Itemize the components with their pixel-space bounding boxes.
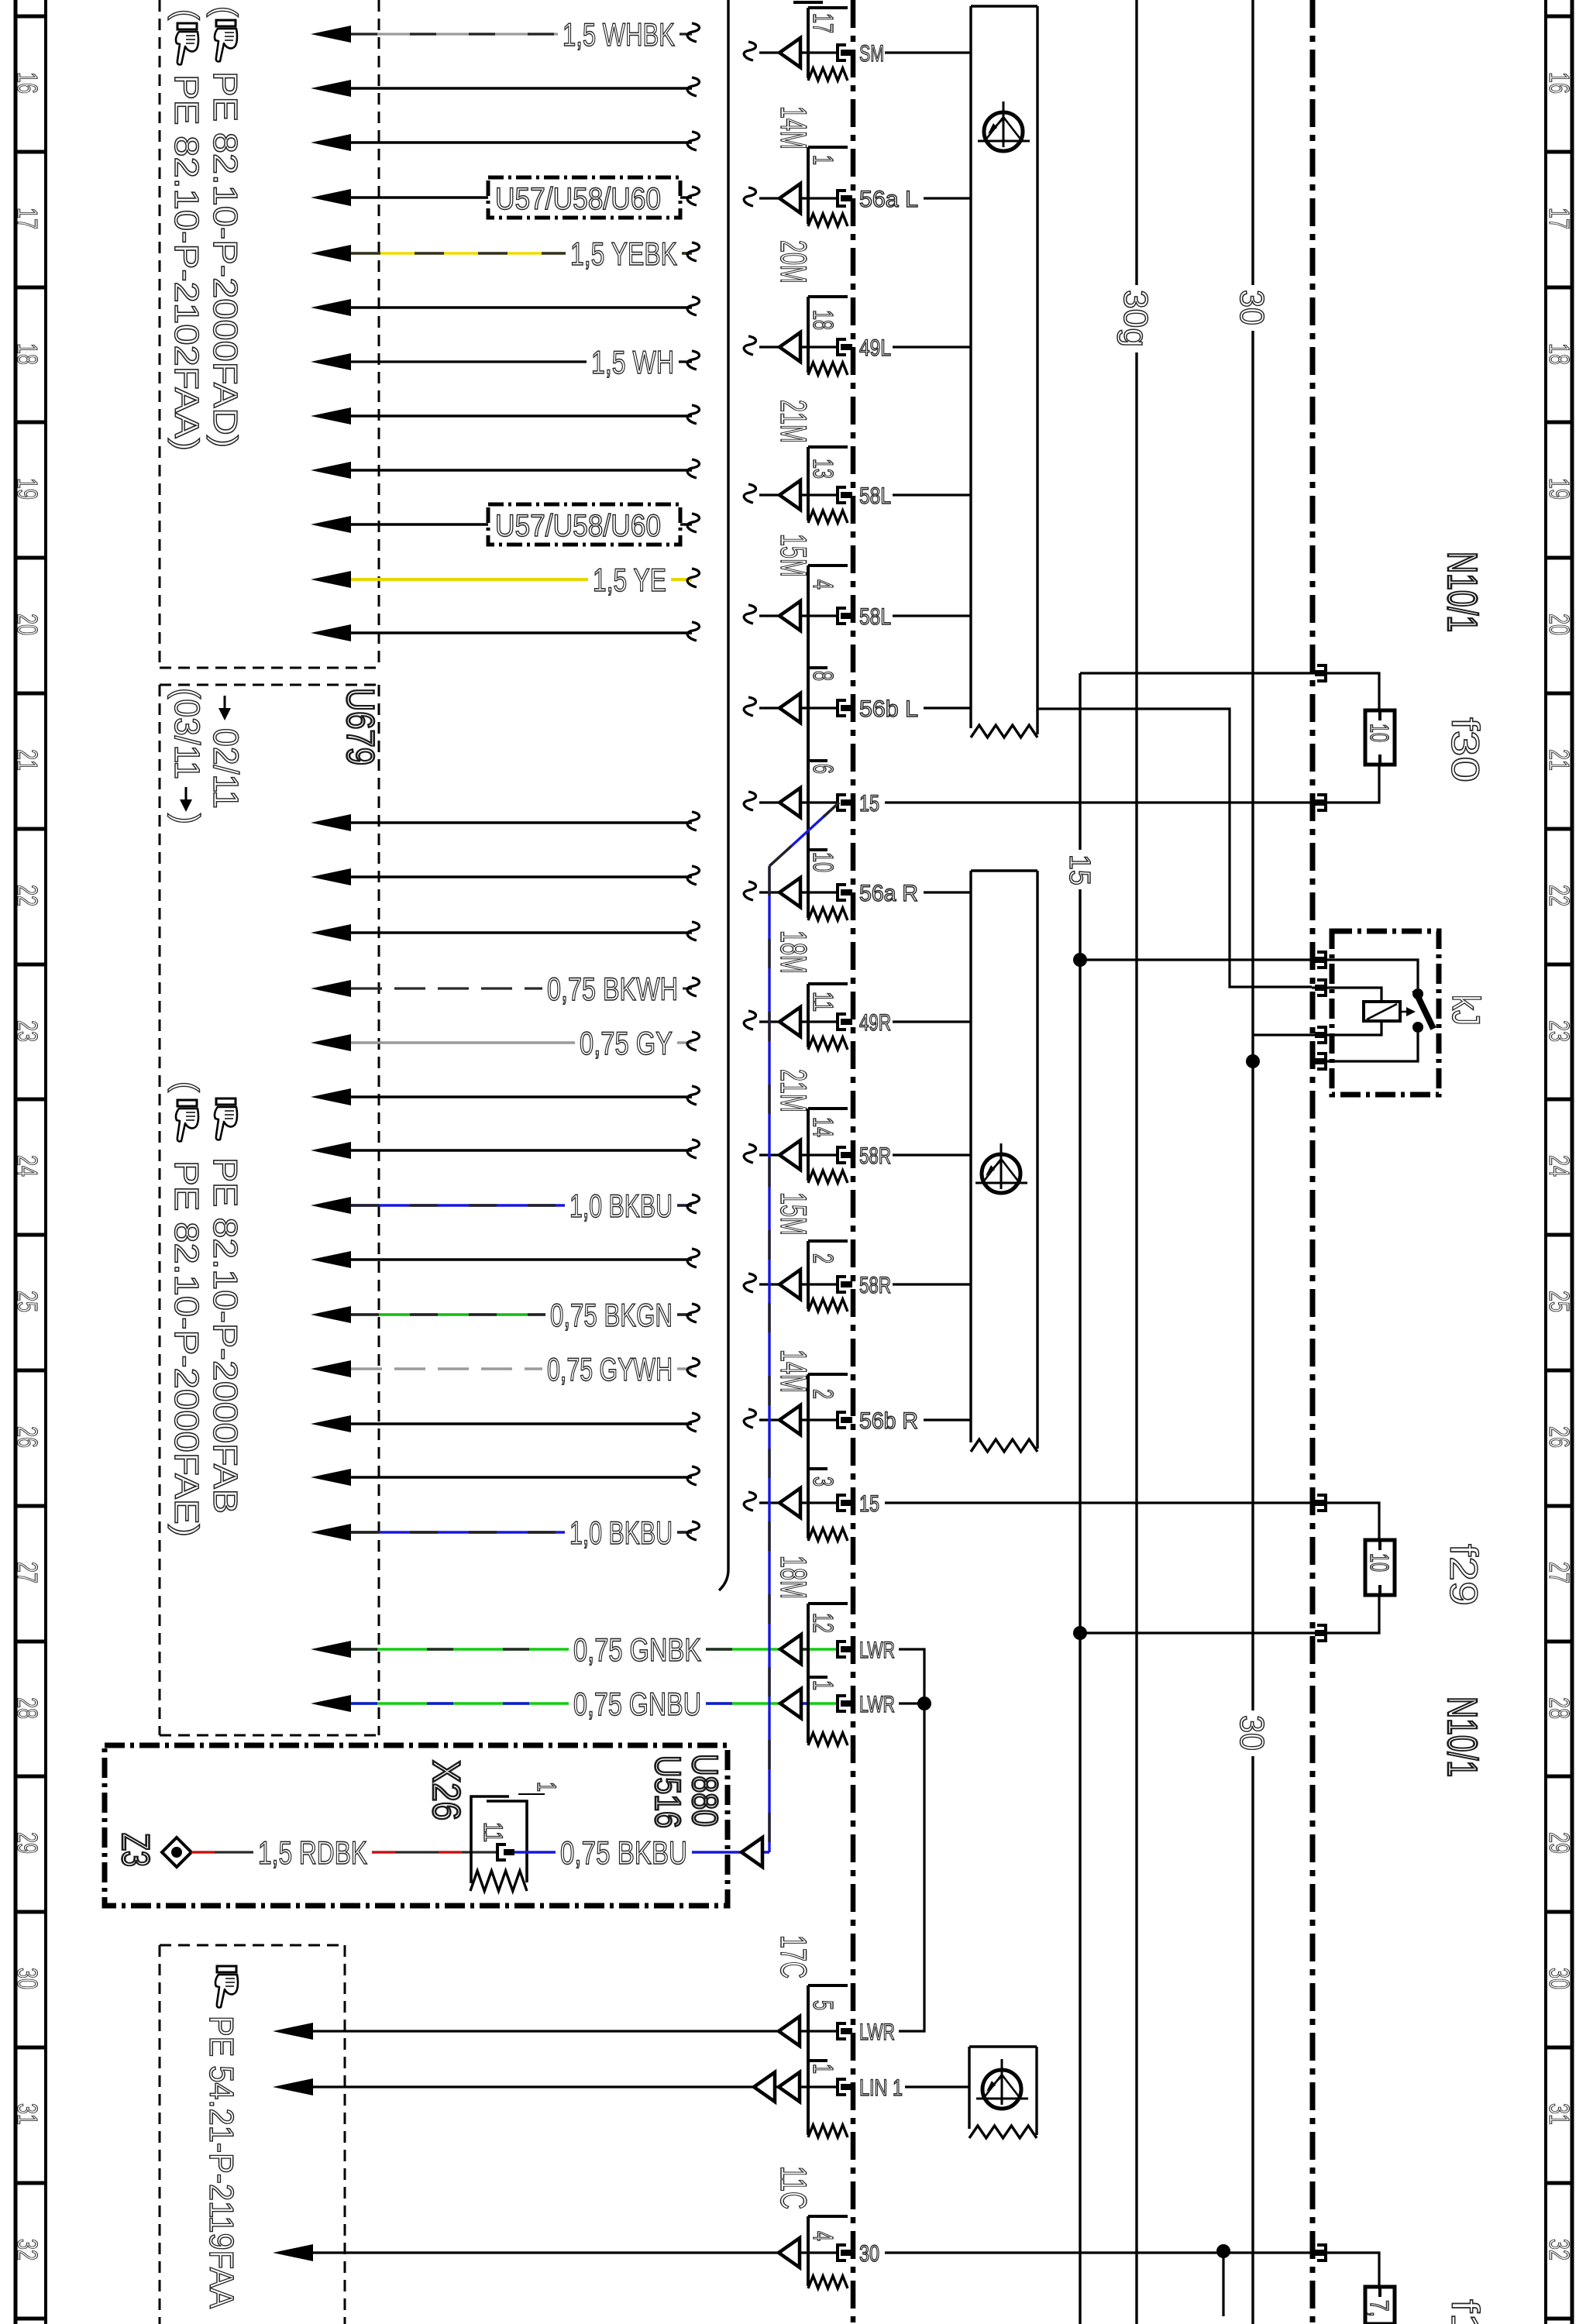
svg-text:24: 24: [1543, 1155, 1575, 1177]
wire to headlamp box: [893, 1020, 971, 1023]
connector pin 1 (56a L): [744, 155, 918, 213]
dashed box lower (PE 54.21 reference): [160, 1945, 345, 2324]
svg-text:1: 1: [532, 1782, 561, 1792]
wire 1,0 BKBU: [311, 1514, 700, 1551]
svg-text:Z3: Z3: [114, 1833, 157, 1867]
svg-text:1,5 WHBK: 1,5 WHBK: [563, 16, 675, 53]
svg-text:18M: 18M: [773, 930, 814, 974]
svg-text:PE 82.10-P-2000FAB: PE 82.10-P-2000FAB: [206, 1157, 244, 1514]
wire (unlabeled): [311, 132, 700, 151]
svg-text:6: 6: [807, 764, 839, 774]
left headlamp unit box: [971, 6, 1037, 737]
connector pin 18 (49L): [744, 310, 891, 362]
svg-text:19: 19: [12, 478, 43, 500]
connector pin 4 (58L): [744, 579, 891, 631]
wire to headlamp box: [893, 346, 971, 348]
wire to headlamp box: [893, 1153, 971, 1156]
svg-text:30: 30: [1543, 1968, 1575, 1989]
right headlamp unit box: [971, 871, 1037, 1452]
connector shell: [808, 447, 848, 523]
wire (unlabeled): [311, 1249, 700, 1268]
svg-text:30g: 30g: [1116, 290, 1154, 347]
svg-text:02/11: 02/11: [206, 728, 246, 809]
note PE 54.21-P-2119FAA with pointing hand: [202, 1966, 240, 2309]
trunk line 30g: [1116, 0, 1154, 2324]
connector shell: [808, 1109, 848, 1183]
svg-text:32: 32: [12, 2239, 43, 2260]
svg-text:15: 15: [859, 1491, 879, 1517]
dashed box U679: [160, 685, 379, 1735]
connector pin 12 (LWR): [807, 1613, 895, 1663]
wire 0,75 GY: [311, 1025, 700, 1061]
wire to pin 4 30: [273, 2238, 838, 2267]
svg-text:23: 23: [1543, 1020, 1575, 1042]
svg-text:27: 27: [12, 1562, 43, 1583]
fuse f30 with feed wires: [1312, 673, 1395, 803]
svg-text:1: 1: [807, 2064, 839, 2074]
svg-text:PE 82.10-P-2102FAA): PE 82.10-P-2102FAA): [167, 74, 205, 451]
svg-text:U57/U58/U60: U57/U58/U60: [495, 182, 661, 216]
svg-text:58L: 58L: [859, 604, 891, 630]
svg-text:11: 11: [807, 992, 839, 1012]
connector pin 6 (15): [744, 764, 879, 817]
svg-text:PE 82.10-P-2000FAE): PE 82.10-P-2000FAE): [167, 1160, 205, 1537]
svg-text:14M: 14M: [773, 1349, 814, 1393]
wire 30 row to fuse f1: [885, 2244, 1312, 2316]
svg-text:0,75 GYWH: 0,75 GYWH: [547, 1351, 673, 1387]
wire 15 row to N10/1: [885, 801, 1312, 803]
svg-text:58R: 58R: [859, 1273, 891, 1298]
svg-text:4: 4: [807, 2231, 839, 2241]
svg-text:(03/11: (03/11: [167, 688, 207, 779]
svg-text:18: 18: [807, 310, 839, 330]
svg-text:N10/1: N10/1: [1439, 552, 1485, 632]
svg-text:PE 54.21-P-2119FAA: PE 54.21-P-2119FAA: [202, 2016, 240, 2309]
connector pin 1 (LWR): [807, 1680, 895, 1717]
note PE 82.10-P-2000FAD with pointing hand: [206, 6, 244, 448]
wire to headlamp box: [893, 1283, 971, 1285]
svg-text:30: 30: [12, 1968, 43, 1989]
svg-text:29: 29: [1543, 1832, 1575, 1854]
ground distributor Z3 dash-dot box: [105, 1745, 728, 1906]
svg-text:29: 29: [12, 1832, 43, 1854]
wire 15 to relay kJ: [1080, 958, 1312, 961]
svg-text:0,75 BKGN: 0,75 BKGN: [550, 1297, 673, 1333]
solder point Z3 diamond: [162, 1838, 191, 1867]
wire to pin 5 LWR: [273, 2016, 838, 2046]
wire 1,5 YE: [311, 562, 700, 598]
svg-text:24: 24: [12, 1155, 43, 1177]
wire 0,75 BKBU from X26: [514, 1834, 769, 1871]
relay kJ switch bottom contact: [1312, 1022, 1423, 1061]
svg-text:kJ: kJ: [1444, 995, 1488, 1026]
wire (unlabeled): [311, 922, 700, 941]
connector pin 4 (30): [807, 2231, 879, 2267]
wire LIN 1 to lamp: [905, 2085, 969, 2088]
bulb symbol left headlamp: [978, 101, 1030, 151]
wire to headlamp box: [893, 614, 971, 617]
svg-text:31: 31: [1543, 2103, 1575, 2125]
note PE 82.10-P-2000FAE with pointing hand: [167, 1081, 205, 1537]
svg-text:49L: 49L: [859, 335, 891, 361]
svg-text:58R: 58R: [859, 1143, 891, 1169]
svg-text:26: 26: [1543, 1426, 1575, 1448]
connector shell: [808, 1604, 848, 1745]
connector shell: [808, 984, 848, 1050]
pin on N10/1 boundary: [1317, 952, 1326, 968]
svg-text:21: 21: [1543, 749, 1575, 771]
connector shell: [808, 1241, 848, 1312]
svg-text:16: 16: [1543, 72, 1575, 94]
svg-text:17: 17: [12, 208, 43, 229]
svg-text:f1: f1: [1443, 2299, 1487, 2324]
svg-text:1,5 RDBK: 1,5 RDBK: [258, 1834, 367, 1871]
wire to U57/U58/U60: [311, 177, 700, 218]
pin on N10/1 boundary: [1317, 665, 1326, 681]
connector shell: [808, 297, 848, 375]
svg-text:28: 28: [12, 1697, 43, 1719]
connector pin 17 (SM): [744, 13, 884, 67]
svg-text:17: 17: [807, 13, 839, 33]
connector X26: [470, 1782, 561, 1891]
svg-text:14: 14: [807, 1117, 839, 1137]
dashed box upper (PE 82.10 references): [160, 0, 379, 668]
svg-text:15: 15: [1063, 854, 1096, 885]
svg-text:U57/U58/U60: U57/U58/U60: [495, 509, 661, 543]
svg-text:PE 82.10-P-2000FAD): PE 82.10-P-2000FAD): [206, 71, 244, 448]
svg-text:0,75 BKWH: 0,75 BKWH: [547, 971, 678, 1007]
svg-text:LWR: LWR: [859, 1692, 895, 1717]
wire (unlabeled): [311, 459, 700, 479]
svg-text:18: 18: [1543, 343, 1575, 365]
svg-text:21M: 21M: [773, 400, 814, 443]
svg-text:2: 2: [807, 1253, 839, 1263]
wire 1,0 BKBU: [311, 1188, 700, 1224]
note PE 82.10-P-2102FAA with pointing hand: [167, 9, 205, 451]
svg-text:1: 1: [807, 155, 839, 165]
wire (unlabeled): [311, 622, 700, 641]
connector shell: [808, 2216, 848, 2288]
svg-text:15M: 15M: [773, 534, 814, 577]
svg-text:56a R: 56a R: [859, 881, 918, 906]
wire 15 row to fuse f29: [885, 1501, 1312, 1504]
svg-text:12: 12: [807, 1613, 839, 1633]
svg-text:8: 8: [807, 671, 839, 681]
wire 0,75 GNBU to pin 1: [311, 1686, 838, 1722]
svg-text:15: 15: [859, 791, 879, 816]
svg-text:30: 30: [1233, 1715, 1271, 1751]
wire (unlabeled): [311, 1140, 700, 1159]
relay kJ coil: [1312, 988, 1416, 1035]
svg-text:10: 10: [807, 852, 839, 872]
svg-text:22: 22: [12, 885, 43, 906]
svg-text:31: 31: [12, 2103, 43, 2125]
svg-text:1,5 YEBK: 1,5 YEBK: [570, 235, 677, 272]
pin on N10/1 boundary: [1317, 1027, 1326, 1043]
pin on N10/1 boundary: [1317, 1495, 1326, 1511]
svg-text:f29: f29: [1442, 1544, 1485, 1606]
svg-text:1,0 BKBU: 1,0 BKBU: [569, 1514, 673, 1551]
drawing border right column with grid numbers 16-32: [1543, 0, 1575, 2324]
wire 1,5 WH: [311, 344, 700, 380]
svg-text:30: 30: [1233, 290, 1271, 325]
svg-text:49R: 49R: [859, 1010, 891, 1036]
wire 0,75 BKWH: [311, 971, 700, 1007]
wire 0,75 BKBU trunk: [769, 803, 839, 1852]
svg-text:28: 28: [1543, 1697, 1575, 1719]
central connector dash-dot line: [851, 0, 856, 2324]
pin on N10/1 boundary: [1317, 2245, 1326, 2260]
drawing border left column with grid numbers 16-32: [12, 0, 46, 2324]
svg-text:21: 21: [12, 749, 43, 771]
svg-text:20M: 20M: [773, 240, 814, 284]
connector pin 8 (56b L): [744, 671, 918, 723]
bulb symbol right headlamp: [975, 1143, 1027, 1193]
svg-text:1,0 BKBU: 1,0 BKBU: [569, 1188, 673, 1224]
svg-text:14M: 14M: [773, 106, 814, 150]
svg-text:1: 1: [807, 1680, 839, 1690]
cut connector shell at page top: [793, 1, 823, 4]
svg-text:0,75 GNBU: 0,75 GNBU: [573, 1686, 701, 1722]
svg-text:N10/1: N10/1: [1439, 1697, 1485, 1777]
connector pin 2 (56b R): [744, 1389, 918, 1435]
svg-text:): ): [167, 813, 207, 824]
svg-text:22: 22: [1543, 885, 1575, 906]
N10/1 boundary dash-dot line: [1310, 0, 1316, 2324]
svg-text:19: 19: [1543, 478, 1575, 500]
svg-text:56b L: 56b L: [859, 696, 918, 722]
svg-text:18M: 18M: [773, 1556, 814, 1599]
connector pin 13 (58L): [744, 459, 891, 510]
svg-text:56a L: 56a L: [859, 187, 918, 212]
svg-text:30: 30: [859, 2241, 879, 2267]
svg-text:0,75 GNBK: 0,75 GNBK: [573, 1631, 701, 1668]
wire 0,75 BKGN: [311, 1297, 700, 1333]
pin on N10/1 boundary: [1317, 980, 1326, 995]
svg-text:17: 17: [1543, 208, 1575, 229]
trunk line 30: [1233, 0, 1271, 2324]
wire (unlabeled): [311, 812, 700, 831]
svg-text:LWR: LWR: [859, 2020, 895, 2045]
wire to U57/U58/U60: [311, 504, 700, 545]
wire to headlamp box: [893, 493, 971, 496]
pin on N10/1 boundary: [1317, 1054, 1326, 1069]
svg-text:25: 25: [12, 1291, 43, 1312]
connector pin 14 (58R): [744, 1117, 891, 1170]
svg-text:17C: 17C: [773, 1935, 814, 1978]
connector shell: [808, 147, 848, 226]
svg-text:11: 11: [478, 1822, 507, 1842]
wire 1,5 RDBK: [191, 1834, 496, 1871]
svg-text:20: 20: [12, 614, 43, 635]
svg-text:15M: 15M: [773, 1192, 814, 1236]
connector shell: [808, 1985, 848, 2137]
svg-text:(: (: [206, 6, 244, 17]
wire 0,75 GNBK to pin 12: [311, 1631, 838, 1668]
relay kJ switch top contact: [1312, 960, 1423, 999]
wire (unlabeled): [311, 77, 700, 97]
svg-text:18: 18: [12, 343, 43, 365]
svg-text:26: 26: [12, 1426, 43, 1448]
harness bundle line: [719, 0, 728, 1590]
wire to headlamp box: [924, 891, 971, 893]
svg-text:0,75 BKBU: 0,75 BKBU: [560, 1834, 687, 1871]
relay kJ dash-dot box: [1332, 931, 1439, 1095]
svg-text:SM: SM: [859, 41, 884, 67]
wire to headlamp box: [924, 197, 971, 199]
wire (unlabeled): [311, 866, 700, 885]
svg-text:16: 16: [12, 72, 43, 94]
pin on N10/1 boundary: [1317, 1625, 1326, 1641]
connector shell: [808, 1374, 848, 1541]
connector pin 3 (15): [744, 1477, 879, 1518]
wire to headlamp box: [885, 51, 971, 53]
svg-text:LWR: LWR: [859, 1638, 895, 1663]
svg-text:(: (: [167, 9, 205, 20]
svg-text:7,: 7,: [1365, 2300, 1394, 2317]
svg-text:LIN 1: LIN 1: [859, 2075, 903, 2101]
svg-text:4: 4: [807, 579, 839, 590]
svg-text:20: 20: [1543, 614, 1575, 635]
trunk line 15: [1063, 673, 1096, 2324]
connector pin 5 (LWR): [807, 2000, 895, 2045]
svg-text:13: 13: [807, 459, 839, 479]
svg-text:(: (: [167, 1081, 205, 1092]
svg-text:27: 27: [1543, 1562, 1575, 1583]
svg-text:f30: f30: [1443, 717, 1487, 782]
wire 15 feed to fuse f30: [1080, 672, 1312, 674]
note (03/11 arrow): [167, 688, 207, 824]
svg-text:X26: X26: [425, 1760, 468, 1820]
wire 1,5 YEBK: [311, 235, 700, 272]
svg-text:1,5 YE: 1,5 YE: [593, 562, 666, 598]
note arrow 02/11: [206, 696, 246, 809]
wire to headlamp box: [924, 1418, 971, 1421]
svg-text:3: 3: [807, 1477, 839, 1487]
pin on N10/1 boundary: [1317, 795, 1326, 810]
wire 30 to relay kJ: [1253, 1033, 1312, 1036]
relay kJ switch blade: [1415, 990, 1433, 1029]
svg-text:32: 32: [1543, 2239, 1575, 2260]
svg-text:25: 25: [1543, 1291, 1575, 1312]
svg-text:U679: U679: [339, 688, 382, 765]
wire 1,5 WHBK: [311, 16, 700, 53]
connector shell: [808, 8, 848, 81]
connector pin 2 (58R): [744, 1253, 891, 1299]
wire LWR link: [899, 1649, 931, 2031]
wire to pin 1 LIN: [273, 2072, 838, 2102]
bulb symbol LIN lamp: [976, 2059, 1028, 2109]
wire (unlabeled): [311, 1466, 700, 1486]
wire 0,75 GYWH: [311, 1351, 700, 1387]
note PE 82.10-P-2000FAB with pointing hand: [206, 1098, 244, 1514]
svg-text:U880: U880: [685, 1754, 725, 1827]
svg-text:1,5 WH: 1,5 WH: [591, 344, 674, 380]
svg-text:21M: 21M: [773, 1069, 814, 1112]
fuse f29 with feed wires: [1080, 1503, 1395, 1633]
connector pin 10 (56a R): [744, 852, 918, 907]
connector pin 1 (LIN 1): [807, 2064, 903, 2101]
wire (unlabeled): [311, 405, 700, 425]
svg-text:58L: 58L: [859, 483, 891, 509]
svg-text:11C: 11C: [773, 2166, 814, 2209]
svg-text:10: 10: [1365, 1553, 1394, 1572]
svg-text:10: 10: [1365, 724, 1394, 742]
wire (unlabeled): [311, 297, 700, 316]
svg-text:23: 23: [12, 1020, 43, 1042]
svg-text:56b R: 56b R: [859, 1408, 918, 1434]
connector shell: [808, 566, 848, 920]
lamp unit box at LIN row: [969, 2047, 1037, 2138]
svg-text:U516: U516: [648, 1755, 688, 1828]
wire (unlabeled): [311, 1086, 700, 1105]
svg-text:5: 5: [807, 2000, 839, 2010]
wire (unlabeled): [311, 1413, 700, 1432]
connector pin 11 (49R): [744, 992, 891, 1037]
wire 56b L to relay: [924, 708, 1312, 987]
svg-text:0,75 GY: 0,75 GY: [580, 1025, 673, 1061]
fuse f1 with feed wire: [1312, 2253, 1395, 2324]
